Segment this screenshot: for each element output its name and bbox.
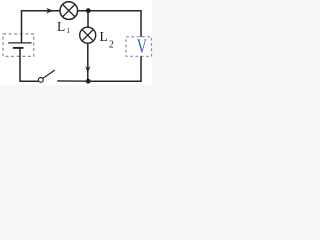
wire voltmeter down to bottom-right corner and left to node B — [88, 56, 141, 81]
junction node B — [86, 79, 91, 84]
current direction arrow (right) — [46, 8, 53, 14]
wire node B to switch right contact — [57, 80, 88, 82]
svg-text:1: 1 — [66, 26, 70, 35]
lamp L1 — [60, 2, 78, 20]
svg-text:L: L — [100, 29, 108, 44]
lamp L2 — [80, 27, 96, 43]
label L1 — [57, 19, 70, 35]
voltmeter V dashed outline — [126, 37, 152, 57]
battery B1 dashed outline — [3, 34, 34, 57]
wire lamp L1 to top-right corner — [78, 10, 141, 12]
wire top-right corner down to voltmeter — [140, 10, 142, 37]
switch S blade — [43, 70, 55, 78]
junction node A — [86, 8, 91, 13]
wire node A down to lamp L2 — [87, 11, 89, 28]
svg-text:V: V — [137, 35, 148, 57]
battery B1 negative plate — [13, 47, 24, 49]
wire battery negative down to bottom-left corner and to switch — [20, 48, 38, 81]
svg-text:2: 2 — [109, 39, 114, 50]
svg-text:L: L — [57, 19, 65, 34]
schematic white background — [0, 0, 152, 85]
current direction arrow (down) — [85, 66, 90, 73]
switch S pivot — [38, 78, 43, 83]
battery B1 positive plate — [8, 42, 31, 44]
wire battery positive up and top wire to lamp L1 — [22, 11, 60, 43]
label L2 — [100, 29, 114, 51]
wire lamp L2 down to node B — [87, 43, 89, 81]
